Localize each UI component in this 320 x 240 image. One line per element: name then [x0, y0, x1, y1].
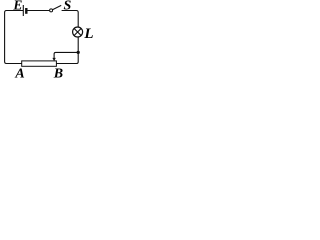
svg-text:E: E — [12, 0, 22, 12]
wire: lamp down through junction to bottom and left to rheostat terminal B — [57, 37, 79, 64]
battery E: short thick negative plate — [25, 8, 27, 14]
switch S: pivot contact circle — [50, 9, 53, 12]
wire: switch to top-right corner and down to lamp — [62, 11, 79, 28]
lamp L: cross stroke 2 — [74, 29, 81, 36]
wire: battery to switch — [28, 10, 50, 12]
switch S: lever blade — [53, 5, 62, 9]
svg-text:L: L — [83, 26, 93, 42]
lamp L: cross stroke 1 — [74, 29, 81, 36]
wire: left loop from battery negative around to rheostat terminal A — [5, 11, 24, 64]
junction node: dot where wiper branch meets lamp wire — [77, 51, 80, 54]
svg-text:A: A — [14, 67, 24, 78]
battery E: long positive plate — [22, 5, 24, 16]
rheostat resistance box A-B — [22, 61, 57, 66]
wire: wiper branch from junction left then down — [54, 52, 78, 58]
svg-text:S: S — [64, 0, 72, 13]
svg-text:B: B — [53, 67, 63, 78]
lamp L: bulb circle — [73, 27, 83, 37]
wiper arrow head touching rheostat — [52, 58, 55, 61]
